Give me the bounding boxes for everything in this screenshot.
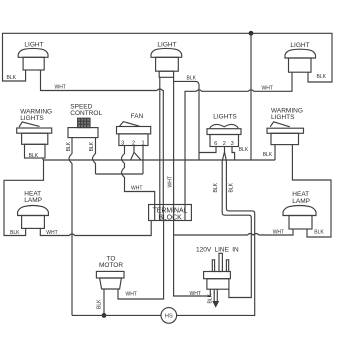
light L1 (top left)	[18, 41, 48, 70]
thermostat HS1 circle	[161, 308, 177, 324]
switch S4 WARMING LIGHTS (right)	[267, 108, 304, 145]
svg-text:BLK: BLK	[263, 152, 273, 158]
wire S4 left terminal to H1 right end	[274, 145, 276, 160]
wire BLK branch from L2 neck right to LIGHTS switch column	[174, 81, 199, 160]
wire H1 main BLK bus	[44, 159, 276, 161]
svg-text:BLK: BLK	[66, 141, 72, 151]
wire WHT terminal block stub down to motor M1	[118, 221, 164, 300]
svg-text:LIGHT: LIGHT	[24, 41, 43, 48]
svg-text:120V LINE IN: 120V LINE IN	[196, 247, 239, 254]
switch S2 FAN	[117, 113, 151, 146]
wire S1 right terminal to H1 bus	[42, 158, 44, 160]
wire S4 right terminal BLK loop down right to heat lamp HL2	[292, 145, 331, 237]
svg-text:WHT: WHT	[126, 291, 137, 297]
wire plug cord with arrow down	[214, 289, 217, 301]
wire SC1 left terminal BLK long vertical down to bottom wire (hop at H1)	[69, 138, 72, 316]
svg-text:BLOCK: BLOCK	[158, 215, 182, 222]
plug P1 120V LINE IN	[196, 247, 239, 290]
svg-text:LIGHTS: LIGHTS	[20, 115, 44, 122]
wire WHT from L3 left terminal leftwards then down to terminal block (hops over BLK verticals)	[185, 72, 292, 204]
svg-text:2: 2	[132, 140, 135, 146]
wire WHT from HL1 right terminal to terminal block left stub (hop over left long vertical)	[40, 221, 151, 236]
svg-text:WHT: WHT	[262, 86, 273, 92]
node junction dot on bottom wire	[102, 313, 107, 318]
light L3 (top right)	[285, 42, 316, 72]
heat lamp HL2 (right)	[283, 191, 316, 229]
svg-text:LAMP: LAMP	[292, 198, 310, 205]
heat lamp HL1 (left)	[18, 191, 49, 229]
wire S3 terminal 2 pair BLK down then right to HS bottom wire (inner)	[176, 152, 254, 315]
svg-text:FAN: FAN	[131, 113, 144, 120]
svg-text:TERMINAL: TERMINAL	[153, 208, 188, 215]
svg-text:WHT: WHT	[55, 85, 66, 91]
wire S2 terminal 1 down through H1 to H2	[142, 146, 144, 175]
wire S2 terminal 2 V-legs onto H1	[131, 146, 141, 160]
speed control SC1	[68, 103, 102, 137]
wire BLK from M1 left terminal down to junction on bottom wire	[103, 289, 105, 315]
wire WHT from L1 right terminal right then down to terminal block (hop over center-light stem)	[41, 70, 164, 205]
svg-text:2: 2	[223, 141, 226, 147]
svg-text:3: 3	[231, 141, 234, 147]
svg-text:CONTROL: CONTROL	[70, 110, 102, 117]
svg-text:WHT: WHT	[131, 186, 142, 192]
svg-text:3: 3	[121, 140, 124, 146]
wire S3 terminal 3 down right jog to H1	[232, 147, 235, 161]
svg-text:BLK: BLK	[7, 75, 17, 81]
switch S3 LIGHTS (rocker, middle right)	[207, 114, 241, 147]
switch S1 WARMING LIGHTS (left)	[17, 109, 52, 159]
motor M1 TO MOTOR	[96, 256, 124, 289]
wire BLK from junction dot down to H1 bus (hop drawn in WHT wire)	[250, 33, 252, 160]
svg-text:BLK: BLK	[10, 230, 20, 236]
terminal block TB1	[149, 205, 192, 222]
svg-text:BLK: BLK	[229, 182, 235, 192]
svg-text:BLK: BLK	[317, 74, 327, 80]
svg-text:LIGHTS: LIGHTS	[213, 114, 237, 121]
wire BLK branch from H1 left end looping down-left to heat lamp HL1	[4, 160, 44, 236]
svg-text:LIGHT: LIGHT	[290, 42, 309, 49]
svg-text:1: 1	[141, 140, 144, 146]
svg-text:BLK: BLK	[97, 299, 103, 309]
svg-text:WHT: WHT	[168, 176, 174, 187]
wire WHT from terminal block stub right to HL2 left terminal (hop over BLK pair)	[174, 221, 293, 236]
arrow head on plug cord	[212, 301, 219, 308]
svg-text:BLK: BLK	[187, 75, 197, 81]
svg-text:WHT: WHT	[46, 230, 57, 236]
svg-text:BLK: BLK	[314, 230, 324, 236]
svg-text:BLK: BLK	[89, 141, 95, 151]
svg-text:LAMP: LAMP	[24, 197, 42, 204]
svg-text:WHT: WHT	[190, 291, 201, 297]
svg-text:LIGHT: LIGHT	[157, 42, 176, 49]
wire bottom from left long vertical to HS circle	[72, 314, 161, 316]
node junction dot on top bus	[249, 31, 254, 36]
wire S3 terminal 6 left jog joining BLK column to H1	[199, 147, 216, 153]
svg-text:6: 6	[214, 141, 217, 147]
svg-text:LIGHTS: LIGHTS	[271, 114, 295, 121]
svg-text:MOTOR: MOTOR	[99, 262, 123, 269]
svg-text:BLK: BLK	[29, 153, 39, 159]
wire SC1 right terminal BLK down to H2 (hop at H1)	[93, 138, 96, 174]
wire L2 stem right down into terminal block	[173, 77, 175, 204]
wire S2 terminal 3 down with hops over H1,H2 then to terminal block	[122, 146, 155, 205]
svg-text:BLK: BLK	[207, 293, 213, 303]
wire L2 stem left (WHT) down into terminal block	[159, 77, 161, 204]
svg-text:HS: HS	[165, 314, 173, 320]
wire WHT terminal block stub down to plug P1	[174, 235, 211, 296]
wire top BLK bus from L1 left terminal around top to L3 right terminal	[3, 33, 333, 82]
svg-text:BLK: BLK	[213, 182, 219, 192]
wire S3 terminal 2 pair BLK down then right to plug side (outer)	[222, 147, 251, 298]
svg-text:BLK: BLK	[239, 147, 249, 153]
light L2 (top center)	[151, 42, 182, 78]
wire H2 bus from SC1 right to FAN terminal1	[96, 173, 144, 175]
